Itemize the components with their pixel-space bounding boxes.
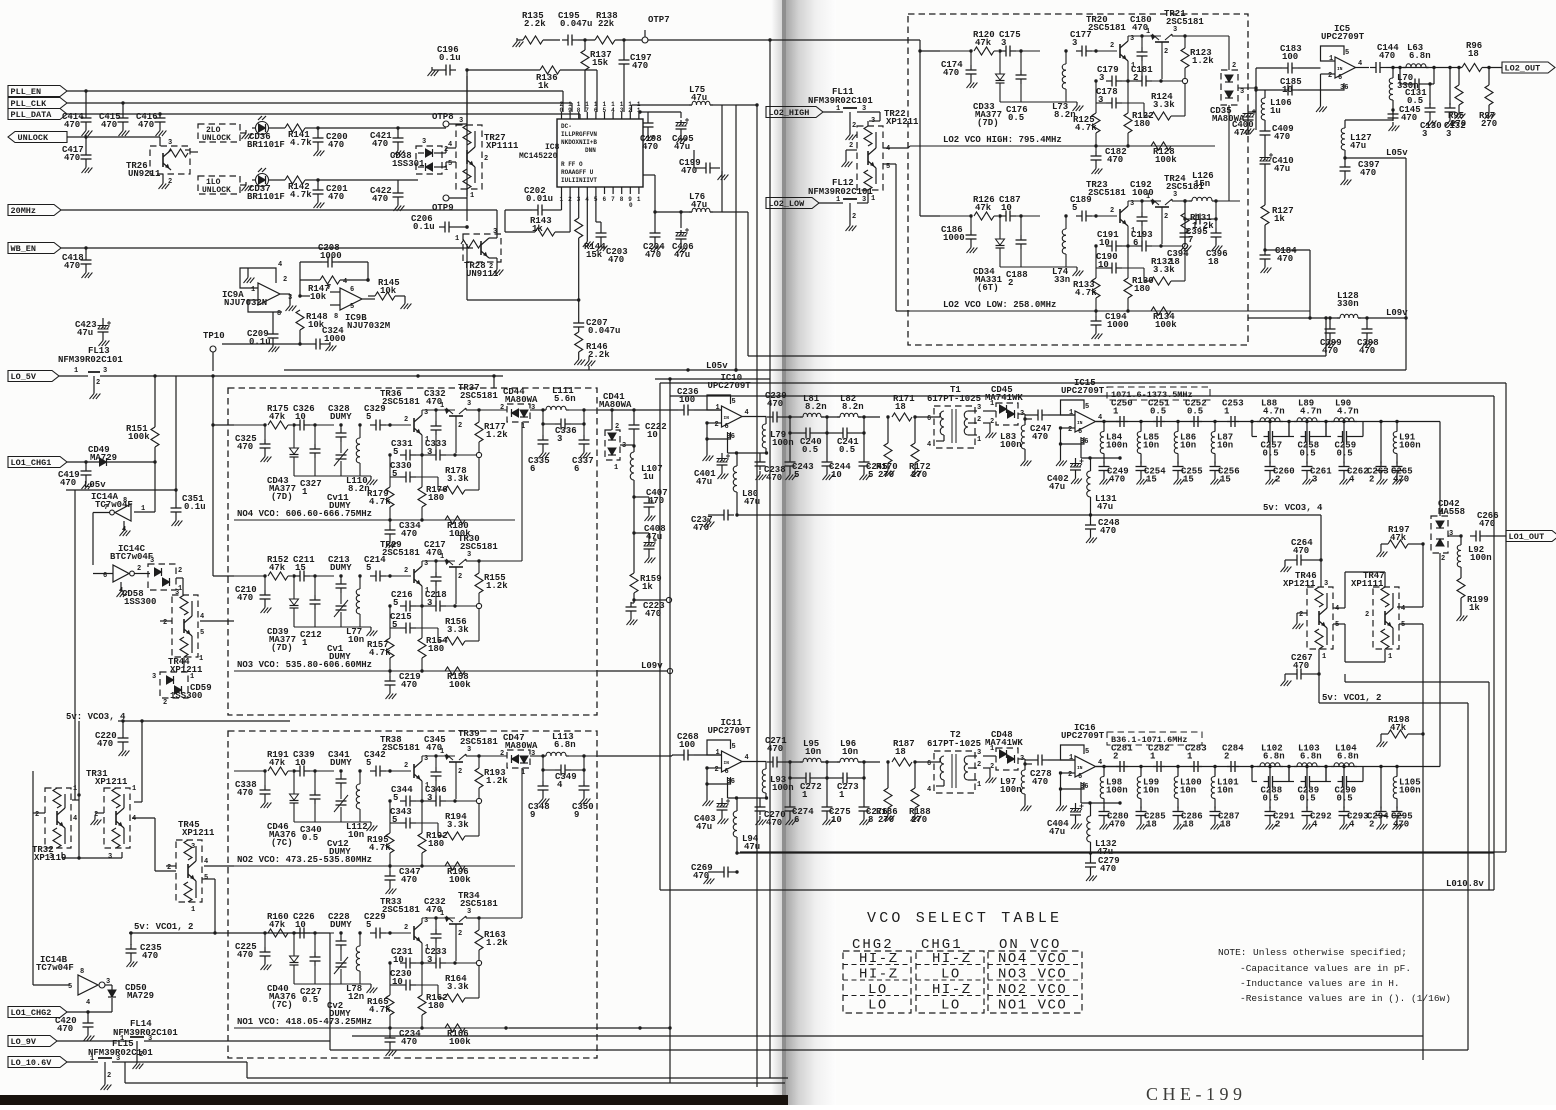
svg-text:4: 4 [86,999,90,1007]
capacitor C407 [632,488,667,512]
svg-text:18: 18 [1468,49,1479,59]
capacitor C261 [1302,420,1333,485]
ground [119,747,130,756]
ground [1303,476,1314,485]
inductor L74 33n [1052,214,1070,285]
wire L70 to L127 [1345,110,1393,128]
wire [310,769,334,772]
svg-text:NFM39R02C101: NFM39R02C101 [88,1048,153,1058]
wire TR collector out [466,916,481,920]
svg-text:470: 470 [401,875,417,885]
ground [326,342,337,351]
capacitor C216 5 [391,590,416,612]
resistor R151 [126,376,159,462]
capacitor C257 [1252,422,1289,459]
svg-text:5: 5 [732,743,736,751]
node table row NO4 VCO [843,951,1082,967]
ground [583,194,594,247]
svg-text:2: 2 [1164,48,1168,56]
wire TR44 to box [200,620,234,622]
wire NO3 VCO input [234,574,267,577]
resistor R176 180 [418,485,448,507]
resistor R133 4.7k [1073,244,1100,311]
svg-text:5v: VCO3, 4: 5v: VCO3, 4 [66,712,126,722]
svg-text:470: 470 [372,194,388,204]
capacitor C241 [825,417,865,455]
capacitor C294 [1367,765,1389,830]
svg-text:1: 1 [440,402,444,410]
svg-text:0.5: 0.5 [1263,449,1279,459]
ground [645,512,656,521]
diode CD44 MA80WA [479,387,538,431]
capacitor C222 [629,408,667,446]
wire emitter [1126,61,1129,146]
inductor L63 [1403,43,1431,68]
inductor L100 [1174,765,1201,807]
svg-text:8: 8 [868,815,873,825]
svg-text:47u: 47u [691,93,707,103]
capacitor C348 9 [528,768,550,820]
node LO2_LOW flag [766,198,819,210]
capacitor C215 5 [390,612,438,641]
svg-text:(7D): (7D) [271,492,293,502]
svg-text:4: 4 [1358,60,1362,68]
svg-text:9: 9 [568,107,572,114]
svg-text:UNLOCK: UNLOCK [202,134,231,143]
wire diode to cap [1025,418,1032,420]
svg-text:DUMY: DUMY [330,412,352,422]
capacitor C415 [99,101,129,130]
svg-text:1000: 1000 [1107,320,1129,330]
wire emitter [420,781,423,866]
resistor R187 [892,739,915,766]
inductor L86 [1174,420,1196,462]
wire [858,415,880,418]
svg-text:0.1u: 0.1u [413,222,435,232]
capacitor C251 [1148,399,1170,428]
svg-text:2: 2 [990,418,994,426]
resistor R126 47k [973,195,995,220]
svg-text:15: 15 [295,563,306,573]
node LO2 VCO LOW: 258.0MHz [943,300,1056,310]
svg-text:470: 470 [1393,820,1409,830]
wire out [1426,67,1462,69]
resistor R152 47k [267,555,289,580]
svg-text:LO: LO [941,998,961,1014]
svg-text:UPC2709T: UPC2709T [1321,32,1365,42]
ground [1281,563,1292,572]
capacitor C416 [136,112,166,130]
svg-text:2SC5181: 2SC5181 [382,397,420,407]
node L010.8v label [1446,879,1484,889]
inductor L88 [1250,399,1284,424]
svg-text:OTP7: OTP7 [648,15,670,25]
capacitor C179 3 [1097,65,1122,87]
svg-text:2: 2 [484,155,488,163]
ground [1326,338,1337,347]
wire FL12 to TR22 [867,198,869,203]
capacitor C250 [1111,399,1133,428]
svg-text:L05v: L05v [84,480,106,490]
filter FL14 NFM39R02C101 [57,1019,330,1060]
svg-text:470: 470 [693,523,709,533]
capacitor C264 [1285,538,1321,566]
resistor R138 [595,11,618,44]
svg-text:180: 180 [1134,284,1150,294]
svg-text:470: 470 [1109,820,1125,830]
svg-text:470: 470 [138,120,154,130]
svg-text:4: 4 [1335,605,1339,613]
node frequency range 1071.6-1373.5MHz [1107,387,1210,400]
wire [310,931,334,934]
svg-text:10n: 10n [1180,441,1196,451]
svg-text:3: 3 [622,442,626,450]
inductor L83 [1000,417,1027,457]
capacitor C334 470 [385,520,422,539]
capacitor C203 [596,194,628,265]
svg-text:5: 5 [366,758,371,768]
inductor L97 [1000,762,1027,802]
svg-text:470: 470 [97,739,113,749]
resistor R97 [1479,66,1497,129]
node notes [1218,947,1451,1004]
resistor R154 180 [418,636,448,658]
svg-text:0.5: 0.5 [1008,113,1024,123]
svg-text:5: 5 [68,983,72,991]
svg-text:NKDOXNII+B: NKDOXNII+B [561,139,597,146]
inductor L76 [643,175,722,212]
svg-text:6: 6 [725,768,729,776]
diode CD46 MA376 (7C) [267,771,299,848]
svg-text:MA80WA: MA80WA [505,395,538,405]
capacitor C207 [573,300,620,336]
ground [84,1032,95,1041]
capacitor C197 [619,38,652,112]
svg-text:0.5: 0.5 [1150,407,1166,417]
svg-text:0.5: 0.5 [1337,449,1353,459]
capacitor C400 electrolytic [1232,109,1256,138]
ground [1377,548,1388,557]
svg-text:1: 1 [440,748,444,756]
capacitor C270 [755,798,786,828]
wire PLL_CLK bus [67,103,572,112]
svg-text:3: 3 [103,367,107,375]
svg-text:270: 270 [911,470,927,480]
node 5v VCO1,2 label [134,922,193,932]
svg-text:47u: 47u [674,250,690,260]
capacitor C183 [1256,44,1321,74]
ground [428,67,441,76]
svg-text:470: 470 [943,68,959,78]
svg-text:5: 5 [392,469,397,479]
node feedback [1182,243,1187,248]
resistor R120 47k [973,30,995,55]
ground [1340,821,1351,830]
svg-text:7: 7 [585,107,589,114]
ground [1340,476,1351,485]
wire TR31 bias [134,719,144,802]
svg-text:6: 6 [530,464,535,474]
wire ladder row [1096,766,1416,768]
wire [288,574,296,577]
ground [286,302,297,311]
svg-text:UN9111: UN9111 [466,269,499,279]
wire TR collector out [1172,199,1187,203]
svg-text:4.7k: 4.7k [369,497,391,507]
svg-text:2: 2 [404,416,408,424]
svg-text:470: 470 [1100,864,1116,874]
svg-text:2: 2 [1008,278,1013,288]
svg-text:1k: 1k [532,224,543,234]
diode CD49 MA729 [67,445,155,466]
svg-text:BR1101F: BR1101F [247,140,285,150]
svg-text:5: 5 [1345,49,1349,57]
capacitor C226 10 [293,912,315,939]
ground [1086,872,1097,881]
capacitor C255 [1173,462,1203,485]
svg-text:2.2k: 2.2k [524,19,546,29]
svg-text:18: 18 [1169,257,1180,267]
wire TR47 5 down [1399,624,1423,734]
inductor L111 5.6n [530,386,598,412]
capacitor C421 [370,126,404,149]
ground [786,816,797,825]
wire to CD38 [318,180,418,188]
capacitor C189 5 [1070,195,1092,222]
capacitor C275 [822,778,851,825]
inductor L90 [1324,399,1358,424]
svg-text:2: 2 [283,276,287,284]
capacitor C130 [1420,82,1442,139]
svg-text:2: 2 [1133,73,1138,83]
svg-text:3: 3 [1240,88,1244,96]
svg-text:4: 4 [745,754,749,762]
ground [261,453,272,462]
inductor L70 [1389,66,1418,110]
capacitor C132 [1444,66,1466,139]
svg-text:6: 6 [927,415,931,423]
ground [597,242,608,251]
capacitor C408 electrolytic [632,524,665,554]
wire fold vertical rail [769,40,771,1078]
transistor TR36 2SC5181 [380,389,429,444]
wire transformer gnd [983,768,996,783]
wire [1016,49,1040,52]
capacitor C231 10 [391,947,416,969]
svg-text:TP10: TP10 [203,331,225,341]
wire [310,423,334,426]
wire op-amp bias [1081,437,1122,460]
capacitor C218 3 [416,590,476,612]
svg-text:470: 470 [1274,132,1290,142]
ground [394,147,405,156]
ground [1261,264,1272,273]
wire LO1_CHG2 [67,1010,112,1013]
ground [704,872,715,884]
svg-text:3: 3 [977,404,981,412]
svg-text:470: 470 [645,250,661,260]
svg-text:470: 470 [1100,526,1116,536]
svg-text:OTP8: OTP8 [432,112,454,122]
wire [633,497,635,573]
capacitor C272 [788,762,827,800]
svg-text:3: 3 [1099,73,1104,83]
node sheet number CHE-199 [1146,1084,1247,1104]
wire NO3 input feed [211,376,234,576]
svg-text:2: 2 [458,930,462,938]
capacitor C175 3 [999,30,1021,57]
ground [82,269,93,278]
capacitor C346 3 [416,785,476,807]
ground [580,449,591,458]
inductor L89 [1287,399,1321,424]
svg-text:470: 470 [1360,168,1376,178]
capacitor C333 3 [416,439,476,461]
wire NO3 VCO rail [234,669,598,672]
transistor TR20 2SC5181 [1086,15,1135,70]
ground [1174,821,1185,830]
svg-text:2: 2 [1068,426,1072,434]
inductor L80 [733,453,760,515]
svg-text:18: 18 [895,747,906,757]
svg-text:MA741WK: MA741WK [985,393,1023,403]
wire TR47 bias right [1345,674,1489,890]
resistor R159 [630,573,662,593]
capacitor C186 1000 [941,216,977,244]
ground [1092,330,1103,339]
svg-text:5: 5 [1072,203,1077,213]
capacitor C182 470 [1091,146,1127,165]
ground [1455,110,1466,119]
node 1LO UNLOCK [198,176,240,195]
svg-text:MA80WA: MA80WA [505,741,538,751]
inductor L98 [1100,765,1127,807]
svg-text:4.7k: 4.7k [369,648,391,658]
svg-text:LO_5V: LO_5V [11,372,37,382]
svg-text:0.5: 0.5 [302,995,318,1005]
svg-text:1: 1 [302,487,308,497]
wire IC9 node [222,343,300,345]
capacitor C259 [1326,422,1363,459]
wire 20MHz [61,210,497,234]
wire NO1 input feed [129,932,190,934]
svg-text:(6T): (6T) [977,283,999,293]
svg-text:2: 2 [1110,42,1114,50]
svg-text:47k: 47k [975,203,992,213]
ground [1316,90,1327,112]
svg-text:1: 1 [614,464,618,472]
svg-text:6: 6 [725,423,729,431]
svg-text:270: 270 [1481,119,1497,129]
svg-text:470: 470 [237,593,253,603]
svg-text:5v: VCO1, 2: 5v: VCO1, 2 [1322,693,1381,703]
wire NO1 VCO rail [234,1026,598,1029]
svg-text:100k: 100k [1155,155,1177,165]
wire page rail [736,103,759,1087]
svg-text:470: 470 [1109,475,1125,485]
wire [994,49,1002,52]
resistor R160 47k [267,912,289,937]
svg-text:2: 2 [1110,207,1114,215]
svg-text:0.047u: 0.047u [588,326,620,336]
capacitor C396 18 [1206,217,1228,267]
wire emitter [1126,226,1129,311]
diode CD42 MA558 [1431,499,1465,563]
svg-text:2SC5181: 2SC5181 [1088,23,1126,33]
wire diode out [1018,759,1025,764]
svg-text:DNN: DNN [585,147,596,154]
capacitor C262 [1339,420,1369,485]
svg-text:0.5: 0.5 [302,833,318,843]
wire [788,415,802,418]
ground [1457,612,1468,621]
svg-text:5: 5 [200,629,204,637]
wire 5V VCO3,4 [736,503,1323,562]
ground [1266,821,1277,830]
ground [367,984,378,993]
capacitor C233 3 [416,947,476,969]
capacitor C350 9 [572,768,594,820]
wire TR collector out [466,408,481,412]
diode CD33 MA377 (7D) [973,51,1005,128]
svg-text:4: 4 [343,278,347,286]
svg-text:6: 6 [603,196,607,203]
node table header CHG2 [852,937,894,953]
ground [823,816,834,825]
capacitor C253 [1222,399,1244,428]
svg-text:2: 2 [977,416,981,424]
svg-text:3.3k: 3.3k [447,820,469,830]
ground [1092,165,1103,174]
capacitor C260 [1265,420,1295,485]
svg-text:2: 2 [137,565,141,573]
svg-text:6: 6 [1078,428,1082,436]
wire TR31 to TR45 [132,818,176,871]
inductor L131 [1087,458,1117,515]
svg-text:1: 1 [199,655,203,663]
svg-text:XP1211: XP1211 [886,117,919,127]
svg-text:0.5: 0.5 [802,445,818,455]
svg-text:2: 2 [404,762,408,770]
resistor R148 [296,310,328,330]
ground [244,268,255,283]
svg-text:2: 2 [852,213,856,221]
wire NO1 rail extension [504,1026,670,1029]
ground [1363,338,1374,347]
wire [788,760,802,763]
wire cell bottom [294,626,371,628]
svg-text:7: 7 [327,284,331,292]
wire [386,574,411,577]
capacitor C397 [1340,156,1380,178]
svg-text:47k: 47k [269,412,286,422]
svg-text:1: 1 [1187,752,1193,762]
wire NO4 output to IC10 [598,408,678,411]
resistor R165 4.7k [367,961,394,1028]
svg-text:5: 5 [392,815,397,825]
ground [846,131,857,140]
svg-text:WB_EN: WB_EN [11,244,37,254]
svg-text:3: 3 [422,138,426,146]
wire IC14A out [93,513,110,566]
svg-text:0.5: 0.5 [1263,794,1279,804]
transistor TR45 XP1211 [166,820,215,914]
wire emitter [420,943,423,1028]
inductor L110 8.2n [346,423,370,494]
svg-text:NO1 VCO: 418.05-473.25MHz: NO1 VCO: 418.05-473.25MHz [237,1017,372,1027]
svg-text:470: 470 [64,153,80,163]
svg-text:1.2k: 1.2k [486,581,508,591]
